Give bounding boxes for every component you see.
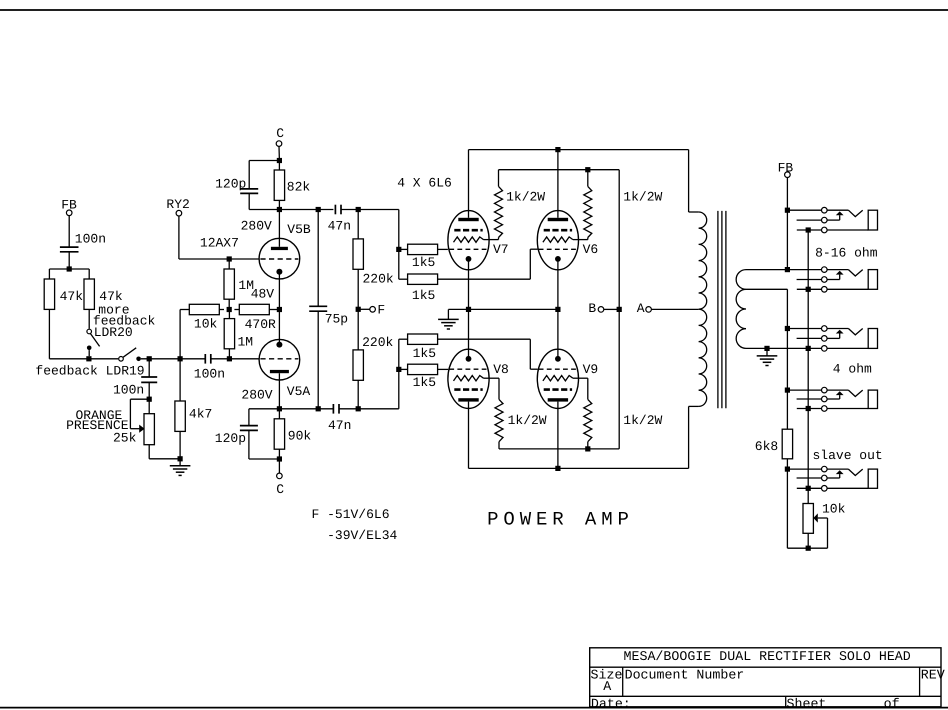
svg-text:220k: 220k <box>362 335 393 350</box>
port RY2 <box>176 210 182 216</box>
svg-text:280V: 280V <box>241 218 272 233</box>
svg-text:V6: V6 <box>583 242 599 257</box>
title block sheet divider <box>785 696 787 707</box>
tube V5A (12AX7 triode) <box>259 339 300 380</box>
resistor 220k (lower) <box>357 309 359 350</box>
wire B screen bus <box>618 170 620 449</box>
junction V9 screen return <box>585 446 590 451</box>
resistor 1k5 (V9 grid) <box>399 338 408 340</box>
wire V8 anode lead <box>468 402 470 469</box>
wire lower phase rail <box>249 408 334 410</box>
tube V5B (12AX7 triode) <box>259 238 300 279</box>
svg-text:MESA/BOOGIE DUAL RECTIFIER SOL: MESA/BOOGIE DUAL RECTIFIER SOLO HEAD <box>624 649 911 664</box>
wire C3 to pot node <box>148 382 150 399</box>
wire anode bottom rail <box>469 467 689 469</box>
ground (secondary) <box>766 348 768 356</box>
resistor 90k <box>278 409 280 419</box>
junction OF node <box>356 307 361 312</box>
wire RY2 to V5B grid <box>178 216 180 259</box>
svg-text:slave out: slave out <box>813 448 883 463</box>
wire V6 cathode lead <box>557 259 559 310</box>
resistor 6k8 <box>782 429 792 459</box>
junction 1k5 lower node <box>396 367 401 372</box>
capacitor 120p (V5A) <box>248 409 250 426</box>
title block mid row line <box>590 695 941 697</box>
wire 4 ohm bus <box>786 289 788 429</box>
junction 25k top <box>147 397 152 402</box>
wire V7 anode lead <box>468 150 470 218</box>
junction jack2 sleeve <box>806 287 811 292</box>
wire 10k bottom <box>807 533 809 548</box>
wire V7 cathode lead <box>468 259 470 310</box>
resistor 1k/2W (V6 screen) <box>587 170 589 187</box>
svg-text:82k: 82k <box>287 179 311 194</box>
svg-text:1k/2W: 1k/2W <box>508 413 547 428</box>
wire anode top rail <box>469 149 689 151</box>
wire 47n to lower grid column <box>339 408 399 410</box>
capacitor 100n C2 <box>204 354 206 364</box>
wire 47n to grid column <box>341 209 399 211</box>
wire to C3 <box>148 359 150 377</box>
resistor 1k5 (V7 grid) <box>399 248 408 250</box>
junction slave bottom <box>806 546 811 551</box>
junction jack3 tip feed <box>785 326 790 331</box>
wire C1 to node <box>68 252 70 269</box>
port FB (left) <box>66 210 72 216</box>
svg-text:4 X 6L6: 4 X 6L6 <box>397 176 452 191</box>
svg-text:V9: V9 <box>583 362 599 377</box>
junction 1M top <box>227 256 232 261</box>
potentiometer 25k ORANGE PRESENCE <box>148 399 150 414</box>
svg-text:1k/2W: 1k/2W <box>623 413 662 428</box>
svg-text:B: B <box>588 301 596 316</box>
tube V9 (6L6) <box>537 349 578 408</box>
wire 47k right to LDR20 <box>88 309 90 328</box>
svg-text:4 ohm: 4 ohm <box>833 362 872 377</box>
svg-text:75p: 75p <box>325 311 348 326</box>
svg-text:470R: 470R <box>245 317 276 332</box>
wire V8 cathode lead <box>468 309 470 358</box>
ground (cathode rail) <box>447 309 449 319</box>
junction 90k bottom <box>277 456 282 461</box>
svg-text:V7: V7 <box>493 242 509 257</box>
svg-text:F -51V/6L6: F -51V/6L6 <box>312 507 390 522</box>
wire 25k to ground node <box>148 445 150 459</box>
svg-text:C: C <box>276 482 284 497</box>
sheet bottom border <box>0 707 948 709</box>
junction secondary ground tap <box>764 346 769 351</box>
jack J4 (4 ohm B) <box>787 389 821 391</box>
junction slave sleeve <box>806 486 811 491</box>
junction V7/V8 cathodes <box>466 307 471 312</box>
wire cathode mid rail <box>448 308 558 310</box>
wire slave bottom rail <box>787 547 827 549</box>
svg-text:Document Number: Document Number <box>625 667 745 682</box>
svg-text:6k8: 6k8 <box>755 439 778 454</box>
wire wiper loop 25k <box>130 398 149 400</box>
junction jack3 sleeve <box>806 346 811 351</box>
wire V6 anode lead <box>557 150 559 218</box>
wire node to C2 <box>180 358 205 360</box>
switch LDR19 <box>119 357 124 362</box>
svg-text:12AX7: 12AX7 <box>200 236 239 251</box>
wire 1k5 pair link (top) <box>398 249 400 279</box>
capacitor 47n (bottom) <box>332 404 334 414</box>
svg-text:Sheet: Sheet <box>787 696 827 710</box>
junction V5B anode <box>277 207 282 212</box>
svg-text:47n: 47n <box>328 219 351 234</box>
capacitor 100n C1 <box>60 246 79 248</box>
wire 47k left to LDR19 row <box>48 309 50 358</box>
switch LDR20 <box>87 329 92 334</box>
svg-text:POWER AMP: POWER AMP <box>487 509 634 531</box>
svg-text:120p: 120p <box>215 177 246 192</box>
transformer secondary winding <box>736 270 746 349</box>
potentiometer 10k (slave level) <box>803 504 813 534</box>
svg-text:100n: 100n <box>194 367 225 382</box>
wire screen rail <box>499 169 620 171</box>
junction 4k7 top <box>178 356 183 361</box>
capacitor 47n (top) <box>334 205 336 215</box>
resistor 1M (grid V5A) <box>228 310 230 319</box>
resistor 1k5 (V6 grid) <box>408 274 438 284</box>
tube V7 (6L6) <box>448 211 489 270</box>
resistor 470R <box>234 309 239 311</box>
resistor 47k (right) <box>84 279 94 309</box>
svg-text:10k: 10k <box>194 317 218 332</box>
wire C2 to V5A grid node <box>211 358 230 360</box>
svg-text:48V: 48V <box>251 286 275 301</box>
capacitor 120p (V5B) <box>249 160 279 162</box>
title block rev divider <box>919 667 921 696</box>
wire V6 grid feed <box>438 278 531 280</box>
junction 220k top <box>356 207 361 212</box>
wire screen return rail <box>499 448 619 450</box>
svg-text:FB: FB <box>61 198 77 213</box>
svg-text:V5A: V5A <box>287 384 311 399</box>
resistor 47k (left) <box>44 279 54 309</box>
svg-text:REV: REV <box>921 667 945 682</box>
junction slave tip feed <box>785 467 790 472</box>
resistor 1M (grid V5B) <box>228 259 230 269</box>
transformer core <box>717 211 719 408</box>
junction jack4 sleeve <box>806 406 811 411</box>
wire V9 anode lead <box>557 402 559 469</box>
svg-text:90k: 90k <box>288 429 312 444</box>
junction divider node <box>227 307 232 312</box>
jack J5 (slave out) <box>787 468 821 470</box>
junction LDR19 left node <box>86 356 91 361</box>
junction cathode node <box>277 307 282 312</box>
svg-text:of: of <box>884 696 900 710</box>
ground (presence) <box>179 459 181 466</box>
capacitor 100n C3 <box>141 376 157 378</box>
junction V6 screen rail <box>585 167 590 172</box>
svg-text:A: A <box>637 301 645 316</box>
junction B bus tap <box>617 307 622 312</box>
svg-text:Date:: Date: <box>591 696 631 710</box>
resistor 4k7 <box>179 359 181 401</box>
junction 75p bottom <box>316 406 321 411</box>
wire FB bus <box>786 178 788 270</box>
svg-text:100n: 100n <box>113 383 144 398</box>
wire node to LDR19 <box>89 358 118 360</box>
wire 47k top rail <box>49 268 89 270</box>
wire lower grid feed <box>398 339 400 409</box>
wiper arrow 25k <box>139 425 144 433</box>
wire LDR19 to presence node <box>141 358 180 360</box>
resistor 1k5 (V8 grid) <box>399 368 408 370</box>
svg-text:10k: 10k <box>822 502 846 517</box>
junction presence branch <box>147 356 152 361</box>
svg-text:1k5: 1k5 <box>413 375 436 390</box>
svg-text:1k5: 1k5 <box>413 346 436 361</box>
svg-text:25k: 25k <box>113 430 137 445</box>
transformer primary winding <box>688 150 690 212</box>
resistor 220k (upper) <box>357 210 359 239</box>
svg-text:1k5: 1k5 <box>412 255 435 270</box>
resistor 1k/2W (V8 screen) <box>484 377 500 379</box>
junction 4k7 bottom <box>178 456 183 461</box>
junction 47k split <box>67 266 72 271</box>
jack J2 (8-16 ohm B) <box>822 267 828 273</box>
svg-text:A: A <box>603 679 611 694</box>
jack J3 (4 ohm A) <box>787 328 821 330</box>
sheet top border <box>0 9 948 11</box>
port F <box>358 308 370 310</box>
junction 220k lower bottom <box>356 406 361 411</box>
tube V8 (6L6) <box>448 349 489 408</box>
svg-text:47k: 47k <box>60 289 84 304</box>
junction jack1 sleeve <box>806 227 811 232</box>
junction V6/V9 cathodes <box>555 307 560 312</box>
wiper arrow 10k <box>813 513 817 522</box>
junction V5A grid node <box>227 356 232 361</box>
wire 6k8 to slave <box>786 459 788 548</box>
junction 1k5 upper node <box>396 247 401 252</box>
wire FB to C1 <box>68 216 70 248</box>
wire V9 grid feed <box>438 338 531 340</box>
wire anode rail <box>249 209 333 211</box>
wire C to 82k node <box>278 146 280 160</box>
wire 10k left leg <box>179 310 181 359</box>
capacitor 75p <box>317 210 319 307</box>
svg-text:100n: 100n <box>75 231 106 246</box>
svg-text:280V: 280V <box>241 388 272 403</box>
resistor 1k/2W (V7 screen) <box>498 170 500 187</box>
wire sleeve bus <box>807 230 809 503</box>
svg-text:47n: 47n <box>328 418 351 433</box>
svg-text:-39V/EL34: -39V/EL34 <box>327 528 397 543</box>
svg-text:120p: 120p <box>215 431 246 446</box>
svg-text:1M: 1M <box>238 335 254 350</box>
port C (bottom) <box>278 459 280 473</box>
title block size divider <box>622 667 624 696</box>
resistor 10k <box>180 309 189 311</box>
title block title row line <box>590 666 941 668</box>
resistor 1k/2W (V9 screen) <box>573 377 588 379</box>
title block frame <box>590 648 941 707</box>
junction 82k top <box>277 158 282 163</box>
junction jack4 tip feed <box>785 388 790 393</box>
wire grid node to V5A <box>229 358 259 360</box>
resistor 82k <box>278 161 280 171</box>
svg-text:F: F <box>377 303 385 318</box>
svg-text:1k/2W: 1k/2W <box>506 189 545 204</box>
svg-text:feedback LDR19: feedback LDR19 <box>35 363 144 378</box>
wire V9 cathode lead <box>557 309 559 358</box>
svg-text:C: C <box>276 126 284 141</box>
svg-text:1k5: 1k5 <box>412 288 435 303</box>
svg-text:V8: V8 <box>493 362 509 377</box>
tube V6 (6L6) <box>537 211 578 270</box>
junction V5A anode <box>277 406 282 411</box>
svg-text:RY2: RY2 <box>166 197 189 212</box>
svg-text:220k: 220k <box>363 272 394 287</box>
svg-text:1k/2W: 1k/2W <box>623 189 662 204</box>
jack J1 (8-16 ohm A) <box>787 209 821 211</box>
junction 8-16 tap <box>785 267 790 272</box>
svg-text:V5B: V5B <box>287 222 311 237</box>
junction V9 anode rail <box>555 466 560 471</box>
junction V6 anode rail <box>555 147 560 152</box>
junction jack1 tip feed <box>785 208 790 213</box>
svg-text:4k7: 4k7 <box>189 407 212 422</box>
wire top grid feed <box>398 210 400 250</box>
svg-text:LDR20: LDR20 <box>94 325 133 340</box>
svg-text:8-16 ohm: 8-16 ohm <box>815 245 878 260</box>
junction 75p top <box>316 207 321 212</box>
